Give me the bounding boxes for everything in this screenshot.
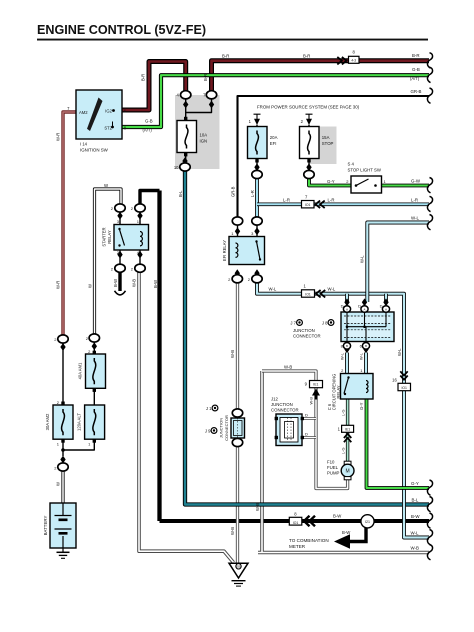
svg-text:G-B: G-B [412,67,420,72]
svg-text:G-Y: G-Y [359,402,364,410]
svg-text:EFI RELAY: EFI RELAY [222,240,227,261]
svg-text:W-B: W-B [230,527,235,535]
svg-text:2: 2 [111,266,114,271]
svg-text:10A: 10A [200,133,208,138]
svg-text:D: D [380,304,383,309]
svg-text:D: D [305,432,308,437]
svg-text:RELAY: RELAY [336,385,341,398]
svg-text:B-W: B-W [342,530,351,535]
svg-text:1: 1 [360,368,363,373]
svg-text:W: W [88,284,93,288]
svg-text:W-R: W-R [56,133,61,141]
svg-text:W-B: W-B [132,279,137,287]
svg-text:16: 16 [392,377,397,382]
svg-text:G-Y: G-Y [411,481,419,486]
svg-text:W-L: W-L [358,352,363,360]
svg-text:2: 2 [341,368,344,373]
svg-text:CONNECTOR: CONNECTOR [293,334,321,339]
svg-text:2: 2 [57,400,60,405]
svg-text:J 1: J 1 [206,406,212,411]
svg-text:TO COMBINATION: TO COMBINATION [289,538,329,543]
svg-text:IO1: IO1 [401,386,407,390]
svg-text:IO1: IO1 [293,521,299,525]
svg-text:B-W: B-W [153,280,158,288]
svg-text:PUMP: PUMP [327,470,340,475]
svg-text:ST2: ST2 [104,126,112,131]
svg-text:2: 2 [248,277,251,282]
svg-text:I21: I21 [365,520,370,524]
svg-text:B-W: B-W [411,514,420,519]
svg-text:W-B: W-B [308,397,313,405]
svg-text:A: A [346,307,348,311]
svg-text:B-R: B-R [141,74,146,81]
svg-text:A: A [363,307,365,311]
svg-text:30A AM2: 30A AM2 [45,413,50,430]
svg-text:M: M [346,469,350,475]
svg-text:10: 10 [174,165,179,170]
svg-text:W: W [55,482,60,486]
svg-text:STOP LIGHT SW: STOP LIGHT SW [348,167,382,172]
svg-text:IO1: IO1 [305,293,311,297]
svg-text:1: 1 [57,441,60,446]
svg-text:FUEL: FUEL [327,465,339,470]
svg-text:B: B [346,344,348,348]
svg-text:2: 2 [131,266,134,271]
svg-text:1: 1 [338,427,341,432]
svg-text:W-L: W-L [411,215,420,220]
svg-text:(A/T): (A/T) [143,128,153,133]
svg-text:W-L: W-L [411,530,420,535]
svg-text:G-B: G-B [145,119,153,124]
svg-text:J 8: J 8 [322,320,328,325]
svg-text:120A ALT: 120A ALT [77,413,82,431]
svg-text:B-W: B-W [113,279,118,287]
svg-text:B: B [365,344,367,348]
svg-text:STOP: STOP [322,141,334,146]
svg-text:IGN: IGN [200,139,208,144]
svg-text:W-L: W-L [339,352,344,360]
svg-text:15A: 15A [322,135,330,140]
svg-text:8: 8 [353,49,356,54]
svg-text:RELAY: RELAY [107,230,112,244]
svg-text:L-R: L-R [283,198,290,203]
svg-text:2: 2 [131,206,134,211]
svg-text:9: 9 [305,382,308,387]
svg-text:1: 1 [303,284,306,289]
svg-text:D: D [358,304,361,309]
svg-text:W-B: W-B [230,350,235,358]
svg-text:B-R: B-R [412,53,420,58]
svg-text:CONNECTOR: CONNECTOR [224,415,229,441]
svg-text:BATTERY: BATTERY [43,516,48,536]
svg-text:3: 3 [251,231,254,236]
svg-text:S 4: S 4 [348,161,355,166]
svg-text:EFI: EFI [270,141,277,146]
svg-text:D: D [305,413,308,418]
svg-text:W: W [104,183,109,188]
svg-text:B-L: B-L [178,190,183,197]
svg-text:1: 1 [231,231,234,236]
svg-text:B-R: B-R [203,74,208,81]
svg-text:W-L: W-L [360,255,365,263]
svg-text:W-L: W-L [397,348,402,356]
svg-text:8: 8 [294,511,297,516]
svg-text:IG2: IG2 [105,108,112,113]
svg-text:(A/T): (A/T) [410,76,420,81]
svg-text:W-R: W-R [56,281,61,289]
svg-text:2: 2 [54,465,57,470]
svg-text:L-G: L-G [340,448,345,455]
svg-text:JUNCTION: JUNCTION [293,328,315,333]
svg-text:W-L: W-L [269,287,277,292]
svg-text:W-B: W-B [411,545,420,550]
svg-text:G-Y: G-Y [327,179,335,184]
svg-text:L-R: L-R [328,198,335,203]
svg-text:METER: METER [289,544,306,549]
svg-text:A: A [385,307,387,311]
svg-text:1: 1 [249,119,252,124]
svg-text:7: 7 [67,106,70,111]
svg-text:1: 1 [88,441,91,446]
svg-text:7: 7 [305,194,308,199]
svg-text:W-L: W-L [328,287,336,292]
svg-text:2: 2 [301,119,304,124]
svg-text:B-R: B-R [303,54,310,59]
svg-text:D: D [341,304,344,309]
svg-text:IO1: IO1 [305,203,311,207]
svg-text:STARTER: STARTER [102,227,107,246]
svg-text:40A AM1: 40A AM1 [77,362,82,379]
svg-text:2: 2 [346,179,349,184]
svg-text:G-W: G-W [411,178,421,183]
svg-text:IGNITION SW: IGNITION SW [80,147,109,152]
svg-text:JUNCTION: JUNCTION [218,418,223,438]
svg-text:F10: F10 [327,459,335,464]
svg-text:L-R: L-R [411,197,418,202]
svg-text:JUNCTION: JUNCTION [271,402,293,407]
svg-text:FROM POWER SOURCE SYSTEM (SEE: FROM POWER SOURCE SYSTEM (SEE PAGE 30) [257,105,360,110]
svg-text:CONNECTOR: CONNECTOR [271,407,299,412]
svg-text:B-L: B-L [412,497,419,502]
svg-text:2: 2 [88,349,91,354]
svg-text:J 9: J 9 [205,428,211,433]
svg-text:2: 2 [54,337,57,342]
svg-text:4-3: 4-3 [351,58,356,62]
svg-text:EB: EB [236,565,240,569]
svg-text:2: 2 [228,277,231,282]
svg-text:J 7: J 7 [290,320,296,325]
svg-text:I 14: I 14 [80,141,88,146]
svg-text:W-B: W-B [255,503,260,511]
svg-text:20A: 20A [270,135,278,140]
svg-text:W-B: W-B [284,364,292,369]
svg-text:GR-B: GR-B [230,186,235,197]
svg-text:GR-B: GR-B [411,89,422,94]
svg-text:B-W: B-W [333,513,342,518]
svg-text:IE1: IE1 [345,427,350,431]
svg-text:B-R: B-R [222,54,229,59]
svg-text:2: 2 [111,206,114,211]
svg-text:L-G: L-G [340,410,345,417]
svg-text:J12: J12 [271,396,279,401]
svg-text:IE1: IE1 [313,383,318,387]
svg-text:1: 1 [384,179,387,184]
svg-text:ENGINE CONTROL (5VZ-FE): ENGINE CONTROL (5VZ-FE) [37,23,206,37]
svg-text:L-R: L-R [250,190,255,197]
svg-text:AM2: AM2 [79,110,88,115]
